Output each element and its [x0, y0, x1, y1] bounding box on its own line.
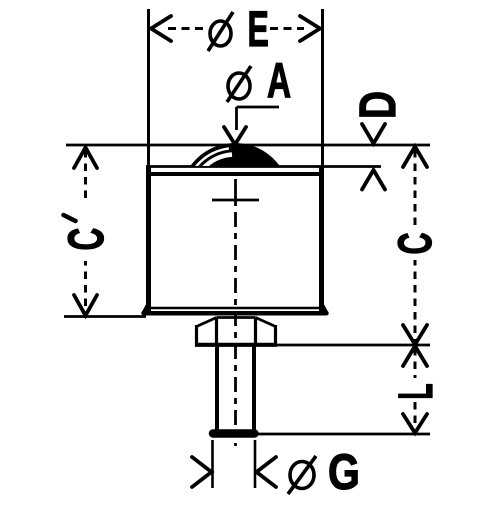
svg-text:G: G [328, 444, 360, 500]
svg-text:C: C [389, 232, 441, 254]
svg-text:C: C [58, 228, 114, 251]
svg-text:L: L [390, 383, 443, 399]
svg-text:E: E [248, 1, 269, 57]
svg-text:A: A [267, 53, 291, 108]
svg-text:D: D [349, 91, 406, 119]
